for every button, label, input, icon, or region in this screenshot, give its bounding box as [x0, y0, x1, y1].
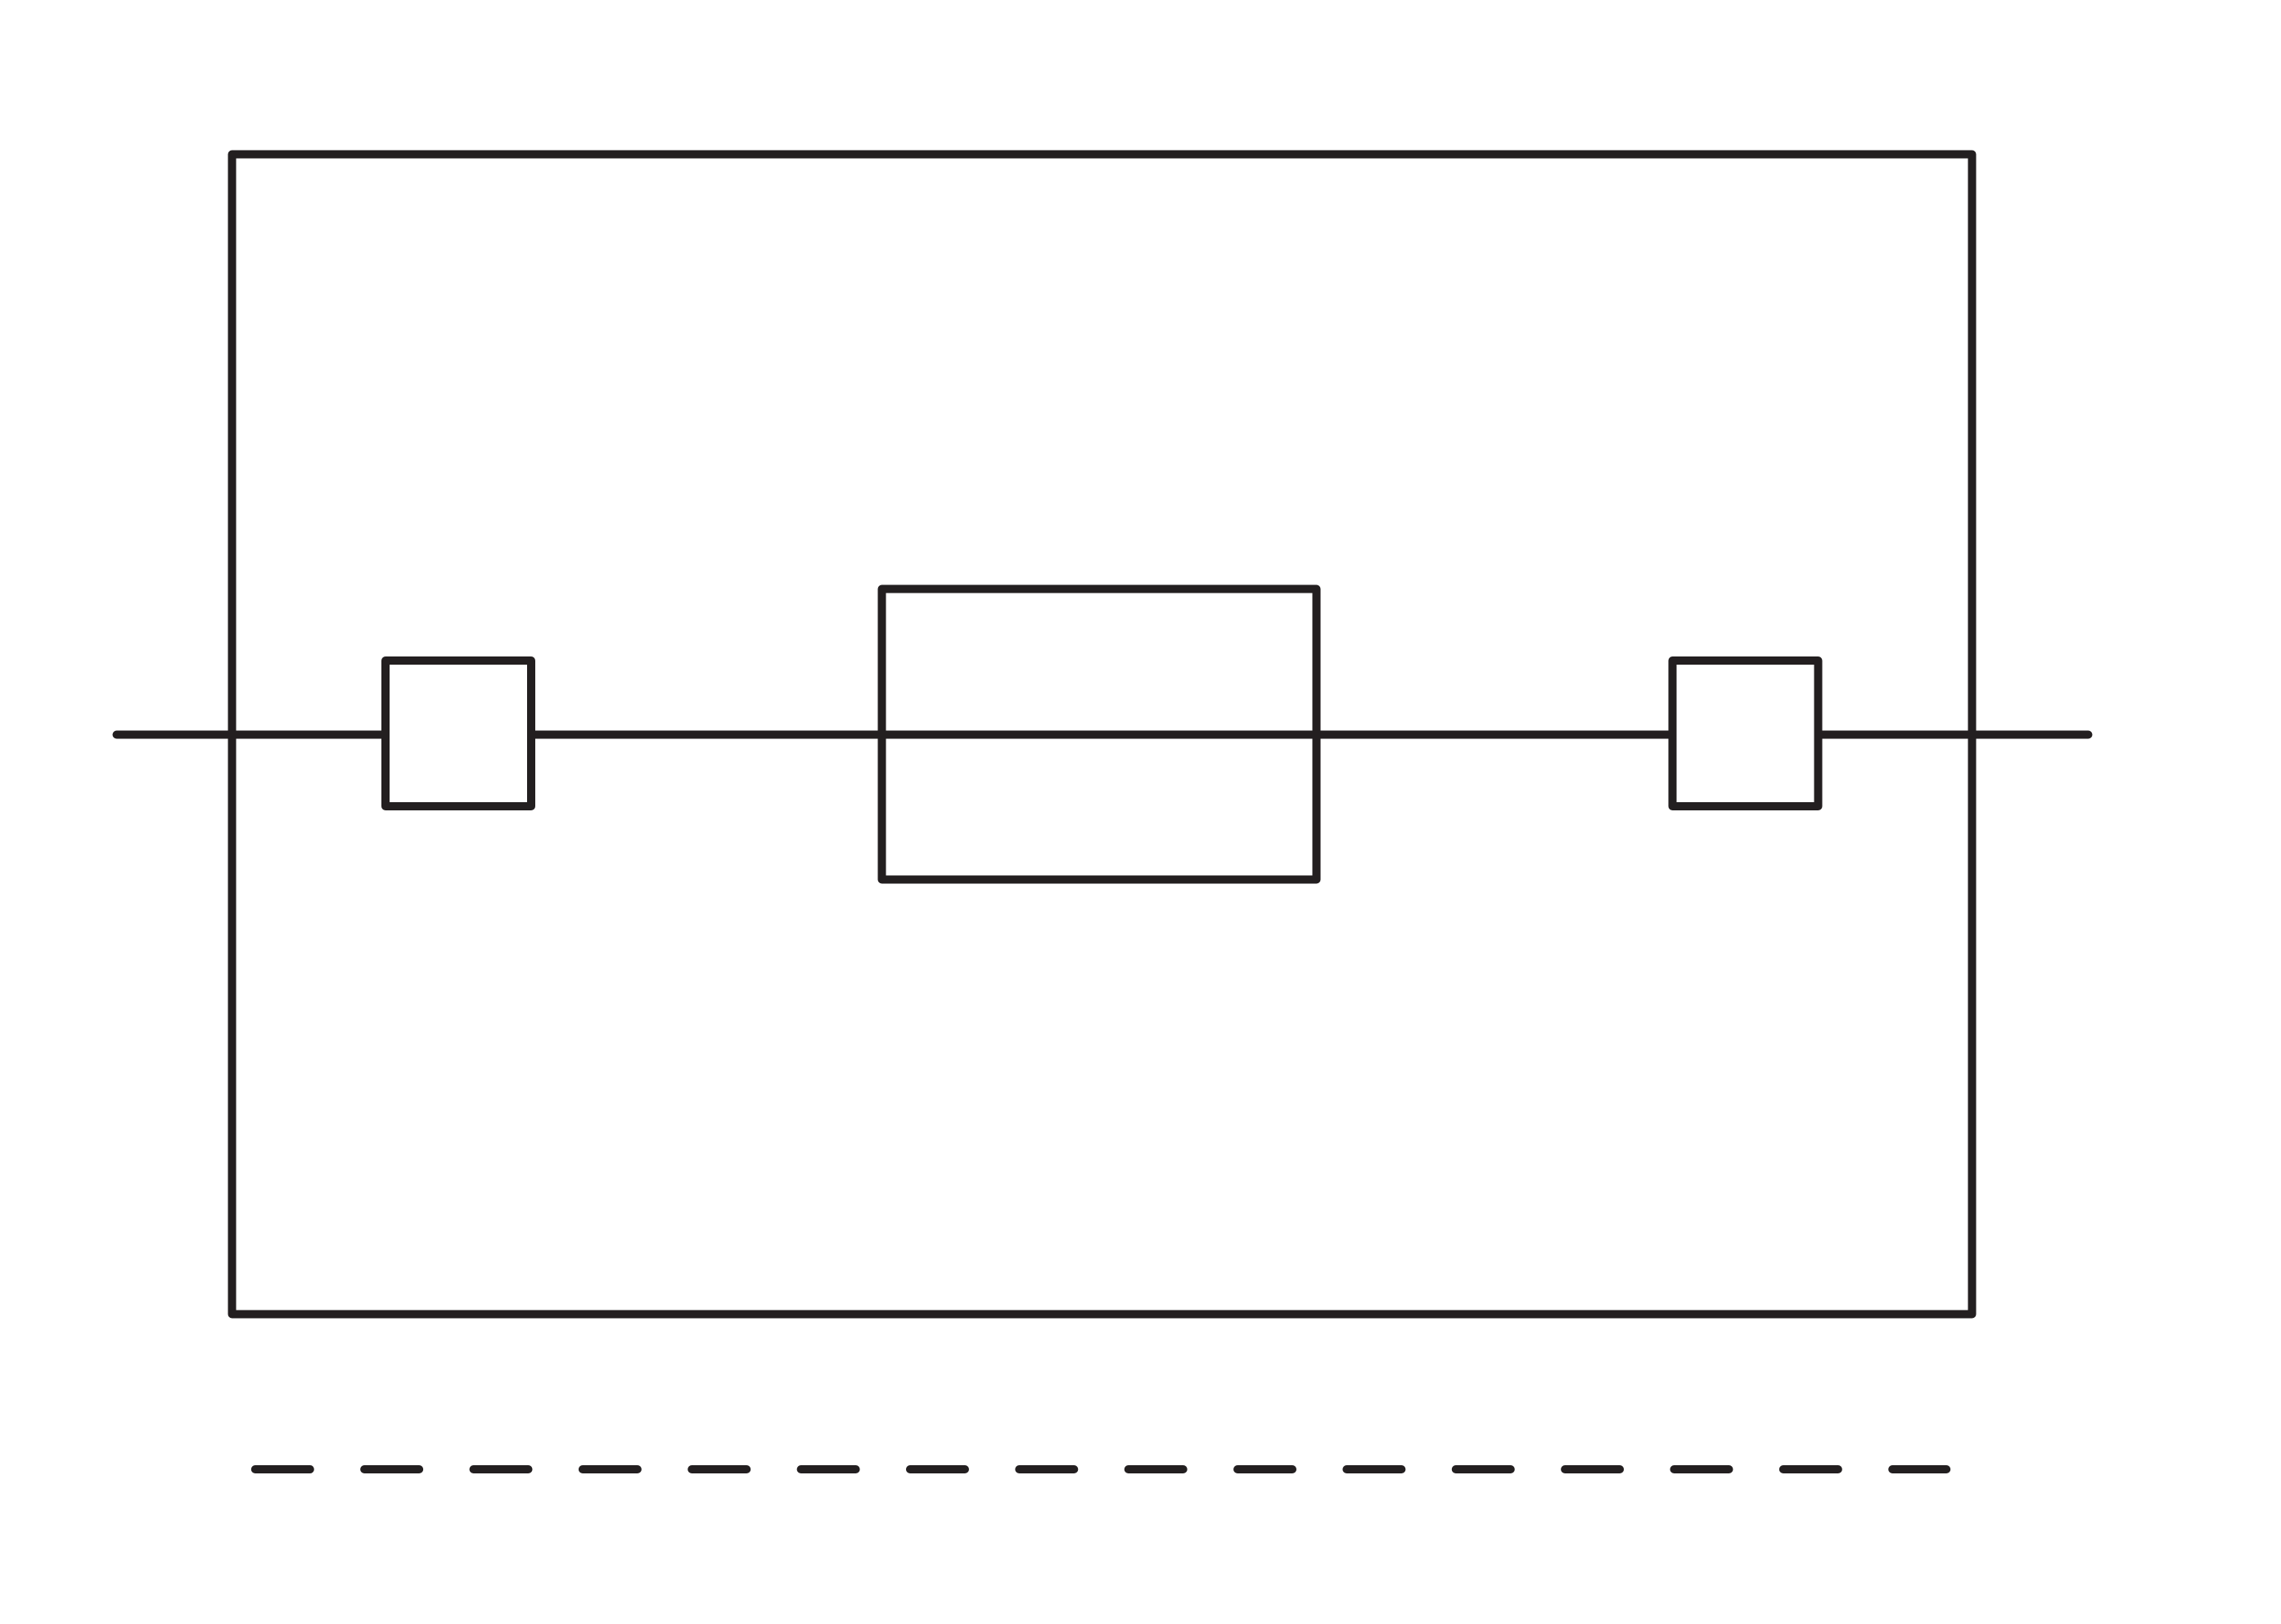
- clamping point left (terminal 1): [385, 661, 531, 806]
- wire (conductor path left to right): [117, 731, 2089, 739]
- terminal block body outline: [232, 155, 1972, 1315]
- fuse F1 (fuse holder rectangle): [882, 589, 1317, 880]
- mounting rail (dashed line): [255, 1465, 1946, 1473]
- clamping point right (terminal 2): [1673, 661, 1819, 806]
